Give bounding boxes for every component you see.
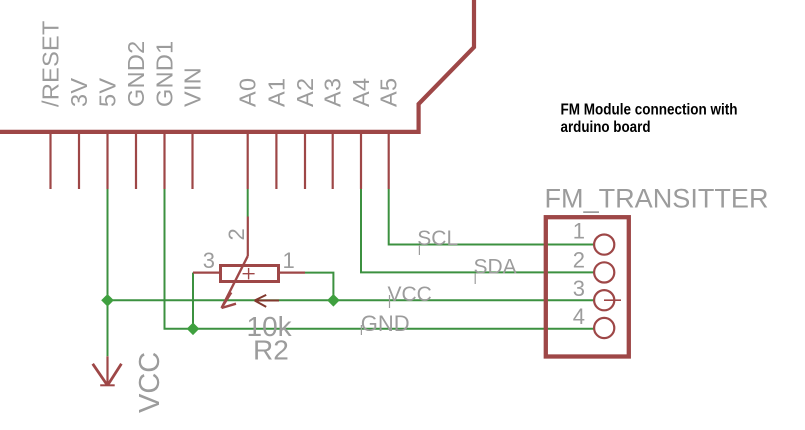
- svg-text:GND: GND: [361, 311, 410, 336]
- pin VIN: [191, 133, 193, 189]
- svg-text:2: 2: [573, 248, 585, 273]
- pin A0: [247, 133, 249, 189]
- connector box: [546, 217, 629, 356]
- svg-text:4: 4: [573, 304, 585, 329]
- svg-text:1: 1: [283, 248, 295, 273]
- junction pot3/GND: [187, 323, 200, 336]
- pin A5: [388, 133, 390, 189]
- VCC supply symbol: [93, 356, 122, 385]
- wire A0 to pot pin2: [247, 189, 249, 217]
- wire pot pin1 to VCC rail: [305, 273, 333, 301]
- wire 5V to VCC rail: [107, 189, 109, 356]
- pot adjust arrow: [255, 295, 279, 307]
- wire pot pin3 to GND rail: [192, 273, 194, 329]
- svg-text:A1: A1: [263, 78, 289, 107]
- pot pin 2 lead: [247, 217, 249, 257]
- pin 3V: [78, 133, 80, 189]
- svg-text:GND2: GND2: [123, 41, 149, 108]
- junction 5V/VCC: [101, 294, 114, 307]
- svg-text:A2: A2: [292, 78, 318, 107]
- svg-text:VCC: VCC: [388, 283, 432, 306]
- connector pin 1: [594, 235, 614, 255]
- svg-text:VIN: VIN: [180, 67, 206, 107]
- pin A1: [275, 133, 277, 189]
- wire GND1 to GND rail: [165, 189, 595, 329]
- svg-text:A0: A0: [235, 78, 261, 107]
- svg-text:A5: A5: [376, 78, 402, 107]
- svg-text:3: 3: [203, 248, 215, 273]
- svg-text:SCL: SCL: [417, 227, 458, 250]
- svg-text:SDA: SDA: [474, 256, 517, 279]
- svg-text:VCC: VCC: [134, 352, 166, 413]
- wire VCC horizontal: [108, 299, 595, 301]
- connector pin 4: [594, 318, 614, 338]
- svg-text:3: 3: [573, 276, 585, 301]
- svg-text:FM_TRANSITTER: FM_TRANSITTER: [545, 183, 769, 213]
- pot pin 3 lead: [193, 272, 220, 274]
- svg-text:A4: A4: [348, 78, 374, 107]
- arduino board outline: [0, 0, 474, 132]
- wire A5 to SCL: [389, 189, 594, 245]
- pin A3: [332, 133, 334, 189]
- svg-text:A3: A3: [320, 78, 346, 107]
- svg-text:1: 1: [573, 218, 585, 243]
- pin A4: [360, 133, 362, 189]
- svg-text:arduino board: arduino board: [561, 119, 651, 136]
- pot pin 1 lead: [279, 272, 305, 274]
- pot wiper diagonal arrow: [222, 256, 248, 308]
- svg-text:3V: 3V: [66, 78, 92, 107]
- svg-text:FM Module connection with: FM Module connection with: [561, 101, 738, 118]
- pin GND1: [163, 133, 165, 189]
- potentiometer R2 body: [221, 266, 279, 282]
- connector pin 3: [594, 290, 614, 310]
- svg-text:2: 2: [224, 228, 249, 240]
- svg-text:5V: 5V: [95, 78, 121, 107]
- polarity plus: [243, 268, 255, 279]
- pin 5V: [106, 133, 108, 189]
- wire A4 to SDA: [361, 189, 594, 272]
- svg-text:GND1: GND1: [152, 41, 178, 108]
- svg-text:/RESET: /RESET: [38, 20, 64, 107]
- connector pin 2: [594, 262, 614, 282]
- pin A2: [304, 133, 306, 189]
- svg-text:R2: R2: [253, 335, 289, 366]
- pin /RESET: [49, 133, 51, 189]
- pin GND2: [135, 133, 137, 189]
- junction pot1/VCC: [327, 294, 340, 307]
